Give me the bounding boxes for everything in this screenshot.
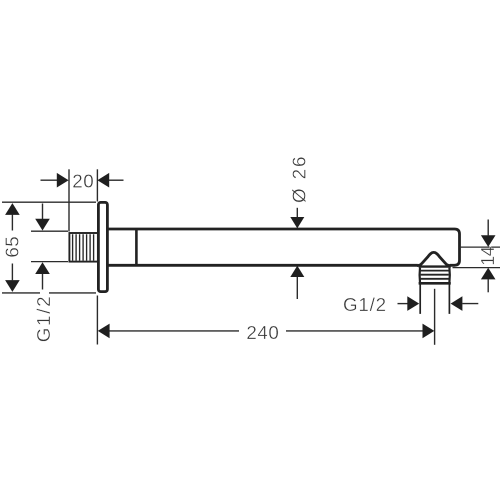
shower arm tube outline: [108, 229, 460, 265]
diameter 26 dimension: lower leader and arrow: [290, 266, 304, 299]
svg-text:G1/2: G1/2: [33, 295, 54, 343]
diameter 26 dimension: label: [288, 155, 309, 203]
dimension 240: label: [246, 322, 279, 343]
svg-text:65: 65: [1, 236, 22, 258]
left G1/2 dimension: extension lines: [31, 231, 68, 261]
dimension 240: dimension line and arrows: [98, 324, 435, 339]
wall thread connector G1/2 (hatched): [69, 233, 98, 262]
right G1/2 dimension: leaders and arrows: [398, 296, 479, 311]
dimension 20: dimension line and arrows: [41, 173, 124, 188]
outlet dome: [417, 252, 450, 265]
dimension 14: extension lines: [453, 247, 500, 268]
dimension 65: dimension line and arrows: [5, 203, 20, 292]
diameter 26 dimension: upper leader and arrow: [290, 208, 304, 229]
wall plate (escutcheon side view): [98, 202, 107, 291]
dimension 20: extension lines: [69, 169, 97, 231]
dimension 65: label: [1, 236, 22, 258]
dimension 65: extension lines: [2, 202, 96, 293]
svg-text:14: 14: [478, 246, 498, 266]
outlet thread block (hatched): [419, 267, 451, 284]
arm joint line: [135, 228, 138, 266]
left G1/2 dimension: dimension line and arrows: [35, 204, 50, 290]
svg-text:Ø 26: Ø 26: [288, 155, 309, 203]
right G1/2 dimension: label: [343, 294, 387, 315]
svg-text:20: 20: [72, 170, 94, 191]
svg-text:240: 240: [246, 322, 279, 343]
dimension 14: dimension line and arrows: [481, 220, 496, 293]
svg-text:G1/2: G1/2: [343, 294, 387, 315]
left G1/2 dimension: label: [33, 295, 54, 343]
outlet pipe: [420, 284, 449, 314]
dimension 240: extension lines: [97, 289, 434, 345]
dimension 14: label: [478, 246, 498, 266]
dimension 20: label: [72, 170, 94, 191]
